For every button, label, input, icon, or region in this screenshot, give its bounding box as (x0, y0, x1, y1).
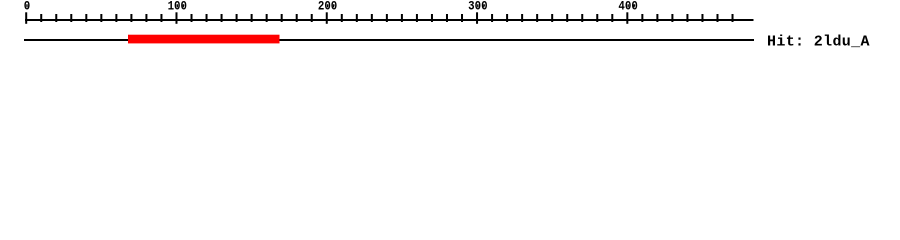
minor tick (130, 14, 132, 22)
minor tick (431, 14, 433, 22)
minor tick (236, 14, 238, 22)
minor tick (701, 14, 703, 22)
major tick 100 (175, 12, 177, 23)
ruler label 300 (468, 0, 487, 14)
minor tick (641, 14, 643, 22)
minor tick (656, 14, 658, 22)
ruler label 100 (168, 0, 187, 14)
minor tick (551, 14, 553, 22)
query line (24, 39, 754, 41)
minor tick (115, 14, 117, 22)
minor tick (100, 14, 102, 22)
minor tick (596, 14, 598, 22)
minor tick (611, 14, 613, 22)
minor tick (401, 14, 403, 22)
minor tick (461, 14, 463, 22)
minor tick (341, 14, 343, 22)
ruler line (25, 19, 754, 21)
minor tick (311, 14, 313, 22)
major tick 300 (476, 12, 478, 23)
major tick 200 (326, 12, 328, 23)
minor tick (686, 14, 688, 22)
minor tick (160, 14, 162, 22)
minor tick (716, 14, 718, 22)
minor tick (581, 14, 583, 22)
minor tick (40, 14, 42, 22)
minor tick (356, 14, 358, 22)
minor tick (206, 14, 208, 22)
minor tick (85, 14, 87, 22)
slashed-zero marks (26, 4, 27, 7)
minor tick (266, 14, 268, 22)
minor tick (191, 14, 193, 22)
minor tick (566, 14, 568, 22)
minor tick (536, 14, 538, 22)
minor tick (251, 14, 253, 22)
minor tick (732, 14, 734, 22)
ruler label 200 (318, 0, 337, 14)
minor tick (491, 14, 493, 22)
minor tick (296, 14, 298, 22)
minor tick (371, 14, 373, 22)
major tick 400 (626, 12, 628, 23)
minor tick (386, 14, 388, 22)
minor tick (416, 14, 418, 22)
minor tick (281, 14, 283, 22)
minor tick (446, 14, 448, 22)
minor tick (221, 14, 223, 22)
major tick 0 (25, 12, 27, 23)
minor tick (671, 14, 673, 22)
minor tick (70, 14, 72, 22)
svg-text:Hit: 2ldu_A: Hit: 2ldu_A (767, 34, 870, 51)
minor tick (521, 14, 523, 22)
hit alignment box (128, 35, 280, 44)
minor tick (506, 14, 508, 22)
ruler label 400 (618, 0, 637, 14)
ruler label 0 (24, 0, 30, 14)
minor tick (55, 14, 57, 22)
minor tick (145, 14, 147, 22)
